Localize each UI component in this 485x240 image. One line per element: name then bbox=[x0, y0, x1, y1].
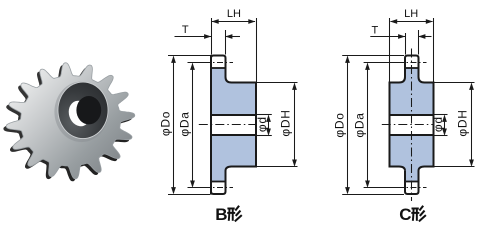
svg-text:φDo: φDo bbox=[159, 111, 173, 136]
svg-text:φDH: φDH bbox=[456, 109, 470, 136]
svg-text:φd: φd bbox=[255, 116, 269, 132]
svg-text:LH: LH bbox=[404, 8, 418, 20]
svg-text:φDa: φDa bbox=[178, 111, 192, 136]
svg-text:T: T bbox=[182, 24, 189, 36]
svg-text:φDo: φDo bbox=[333, 112, 347, 137]
svg-text:φd: φd bbox=[431, 116, 445, 132]
svg-text:C: C bbox=[399, 205, 411, 224]
svg-text:φDa: φDa bbox=[353, 112, 367, 137]
svg-text:LH: LH bbox=[227, 8, 241, 20]
svg-text:T: T bbox=[372, 25, 379, 37]
svg-text:B: B bbox=[215, 205, 227, 224]
svg-text:φDH: φDH bbox=[279, 109, 293, 136]
